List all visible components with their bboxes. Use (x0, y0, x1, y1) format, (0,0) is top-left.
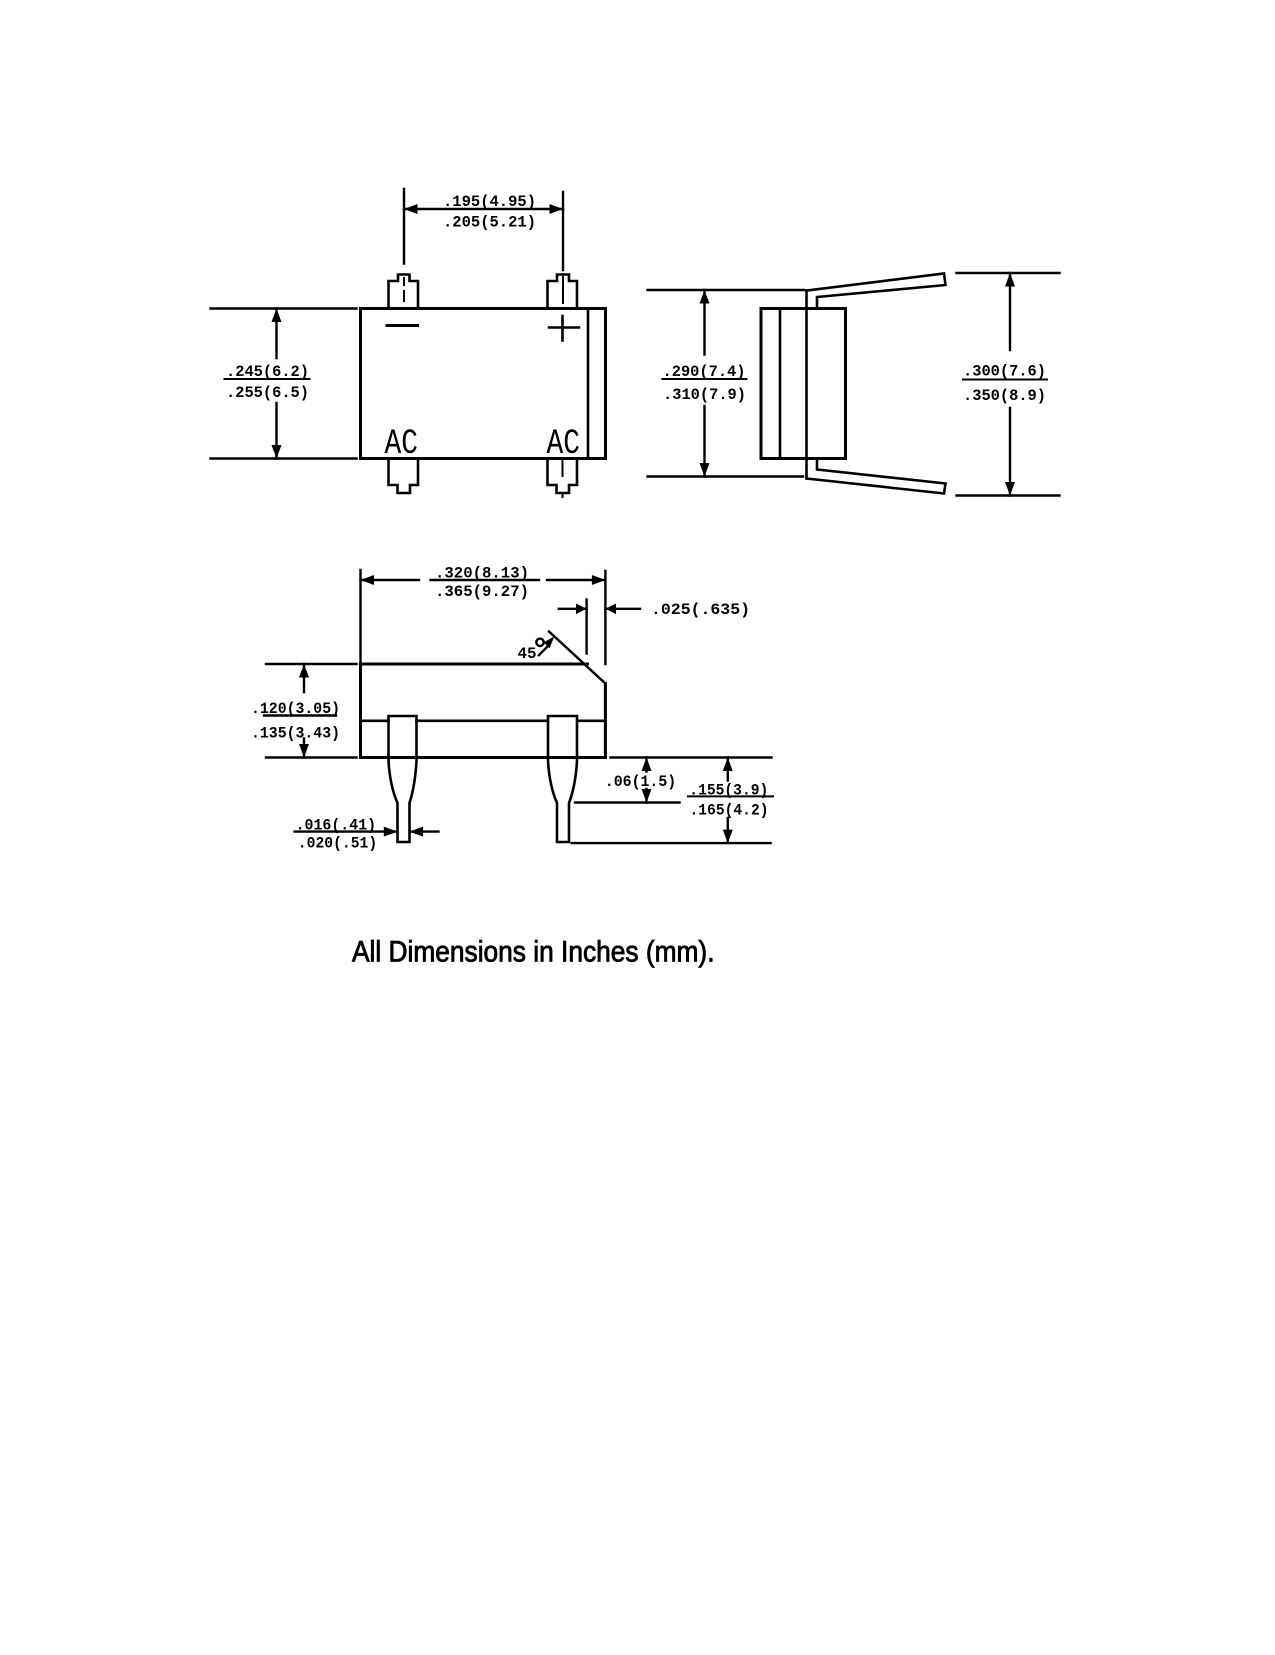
dim .320/.365: left extension line (359, 570, 361, 664)
top view: bottom-left pin tab (389, 459, 419, 494)
dim .290/.310: up arrowhead (700, 290, 710, 304)
svg-text:AC: AC (547, 424, 581, 464)
bottom view: right lead (548, 716, 577, 842)
svg-text:.350(8.9): .350(8.9) (963, 387, 1046, 405)
45 degree circle (degree mark) (536, 639, 543, 646)
top view: bottom-right pin tab (548, 459, 578, 494)
dim .245/.255: down arrowhead (272, 445, 282, 459)
dim .195/.205: dimension line (404, 208, 563, 210)
side view: top lead strip (807, 274, 946, 309)
svg-text:AC: AC (385, 424, 419, 464)
dim .06: arrow shafts (645, 758, 647, 803)
top view: pin center line right (562, 277, 564, 303)
dim .195/.205: left arrowhead (404, 204, 418, 214)
svg-text:.365(9.27): .365(9.27) (435, 583, 529, 601)
svg-text:.205(5.21): .205(5.21) (443, 214, 536, 232)
top view: bottom-right pin center line (562, 460, 564, 497)
dim .155/.165: bottom extension line (572, 842, 771, 844)
dim .025: inner extension line (585, 600, 587, 654)
svg-text:.020(.51): .020(.51) (298, 835, 377, 853)
dim .025: right arrow line (605, 608, 640, 610)
dim .06: bottom extension line (575, 801, 680, 803)
side view: body outline (761, 309, 846, 459)
dim .195/.205: right arrowhead (550, 204, 564, 214)
bottom view: body outline (361, 664, 606, 758)
side view: bottom lead strip (807, 459, 946, 494)
dim .06: top extension line (611, 756, 772, 758)
side view: inner vertical line (779, 309, 782, 459)
svg-text:.120(3.05): .120(3.05) (251, 700, 340, 718)
top view: pin center line left (dashed) (403, 278, 405, 301)
dim .120/.135: fraction bar (264, 714, 336, 716)
dim .016/.020: left arrow line with underline (295, 830, 398, 832)
dim .245/.255: up arrowhead (272, 309, 282, 323)
dim .300/.350: up arrowhead (1005, 273, 1015, 287)
dim .300/.350: bottom extension line (957, 494, 1060, 496)
dim .300/.350: fraction bar (963, 379, 1047, 381)
svg-text:.320(8.13): .320(8.13) (435, 565, 529, 583)
dim .155/.165: arrow shafts (727, 758, 729, 844)
svg-text:.155(3.9): .155(3.9) (689, 782, 768, 800)
svg-text:.165(4.2): .165(4.2) (690, 802, 769, 820)
svg-text:.290(7.4): .290(7.4) (663, 363, 746, 381)
svg-text:All Dimensions in Inches (mm).: All Dimensions in Inches (mm). (352, 936, 715, 969)
dim .245/.255: bottom extension line (211, 457, 357, 459)
dim .120/.135: top extension line (266, 663, 357, 665)
top view: plus polarity mark (549, 316, 579, 341)
svg-text:.016(.41): .016(.41) (296, 817, 377, 835)
svg-text:.06(1.5): .06(1.5) (605, 773, 676, 791)
svg-text:.310(7.9): .310(7.9) (663, 386, 746, 404)
svg-text:.025(.635): .025(.635) (651, 601, 750, 619)
top view: package body outline (361, 309, 606, 459)
dim .290/.310: bottom extension line (648, 475, 804, 477)
dim .245/.255: dimension line segments (275, 309, 277, 459)
45 degree leader arrow (539, 647, 547, 655)
top view: top-left pin tab (389, 275, 419, 309)
bottom view: step line segments (361, 719, 605, 722)
dim .300/.350: top extension line (957, 272, 1060, 274)
top view: minus polarity mark (387, 324, 418, 327)
dim .290/.310: top extension line (648, 289, 805, 291)
dim .120/.135: bottom extension line (266, 756, 357, 758)
svg-text:.300(7.6): .300(7.6) (963, 363, 1046, 381)
dim .016/.020: right arrow line (410, 830, 439, 832)
top view: inner vertical line near right edge (587, 309, 590, 459)
dim .290/.310: fraction bar (663, 378, 747, 380)
dim .320/.365: left arrowhead (361, 575, 375, 585)
top view: top-right pin tab (548, 275, 578, 309)
bottom view: left lead (389, 716, 417, 842)
dim .245/.255: top extension line (211, 307, 357, 309)
dim .320/.365: dimension line segments (361, 579, 606, 581)
dim .290/.310: dimension line segments (703, 290, 705, 477)
dim .290/.310: down arrowhead (700, 463, 710, 477)
svg-text:.255(6.5): .255(6.5) (226, 384, 309, 402)
svg-text:.135(3.43): .135(3.43) (251, 725, 340, 743)
dim .300/.350: dimension line segments (1009, 273, 1011, 496)
dim .195/.205: left extension line (403, 189, 405, 264)
side view: lead front edge through body (805, 291, 808, 479)
svg-text:.245(6.2): .245(6.2) (226, 363, 309, 381)
dim .245/.255: fraction bar (225, 378, 310, 380)
dim .300/.350: down arrowhead (1005, 482, 1015, 496)
dim .320/.365: right extension line (604, 571, 606, 664)
dim .025: left arrow line (559, 608, 587, 610)
dim .320/.365: right arrowhead (592, 575, 606, 585)
dim .120/.135: dimension line segments (303, 664, 305, 758)
dim .155/.165: fraction bar (688, 795, 773, 797)
svg-text:45: 45 (518, 645, 537, 663)
dim .195/.205: right extension line (562, 192, 564, 270)
bottom view: chamfer line extended (549, 632, 605, 684)
svg-text:.195(4.95): .195(4.95) (443, 193, 536, 211)
